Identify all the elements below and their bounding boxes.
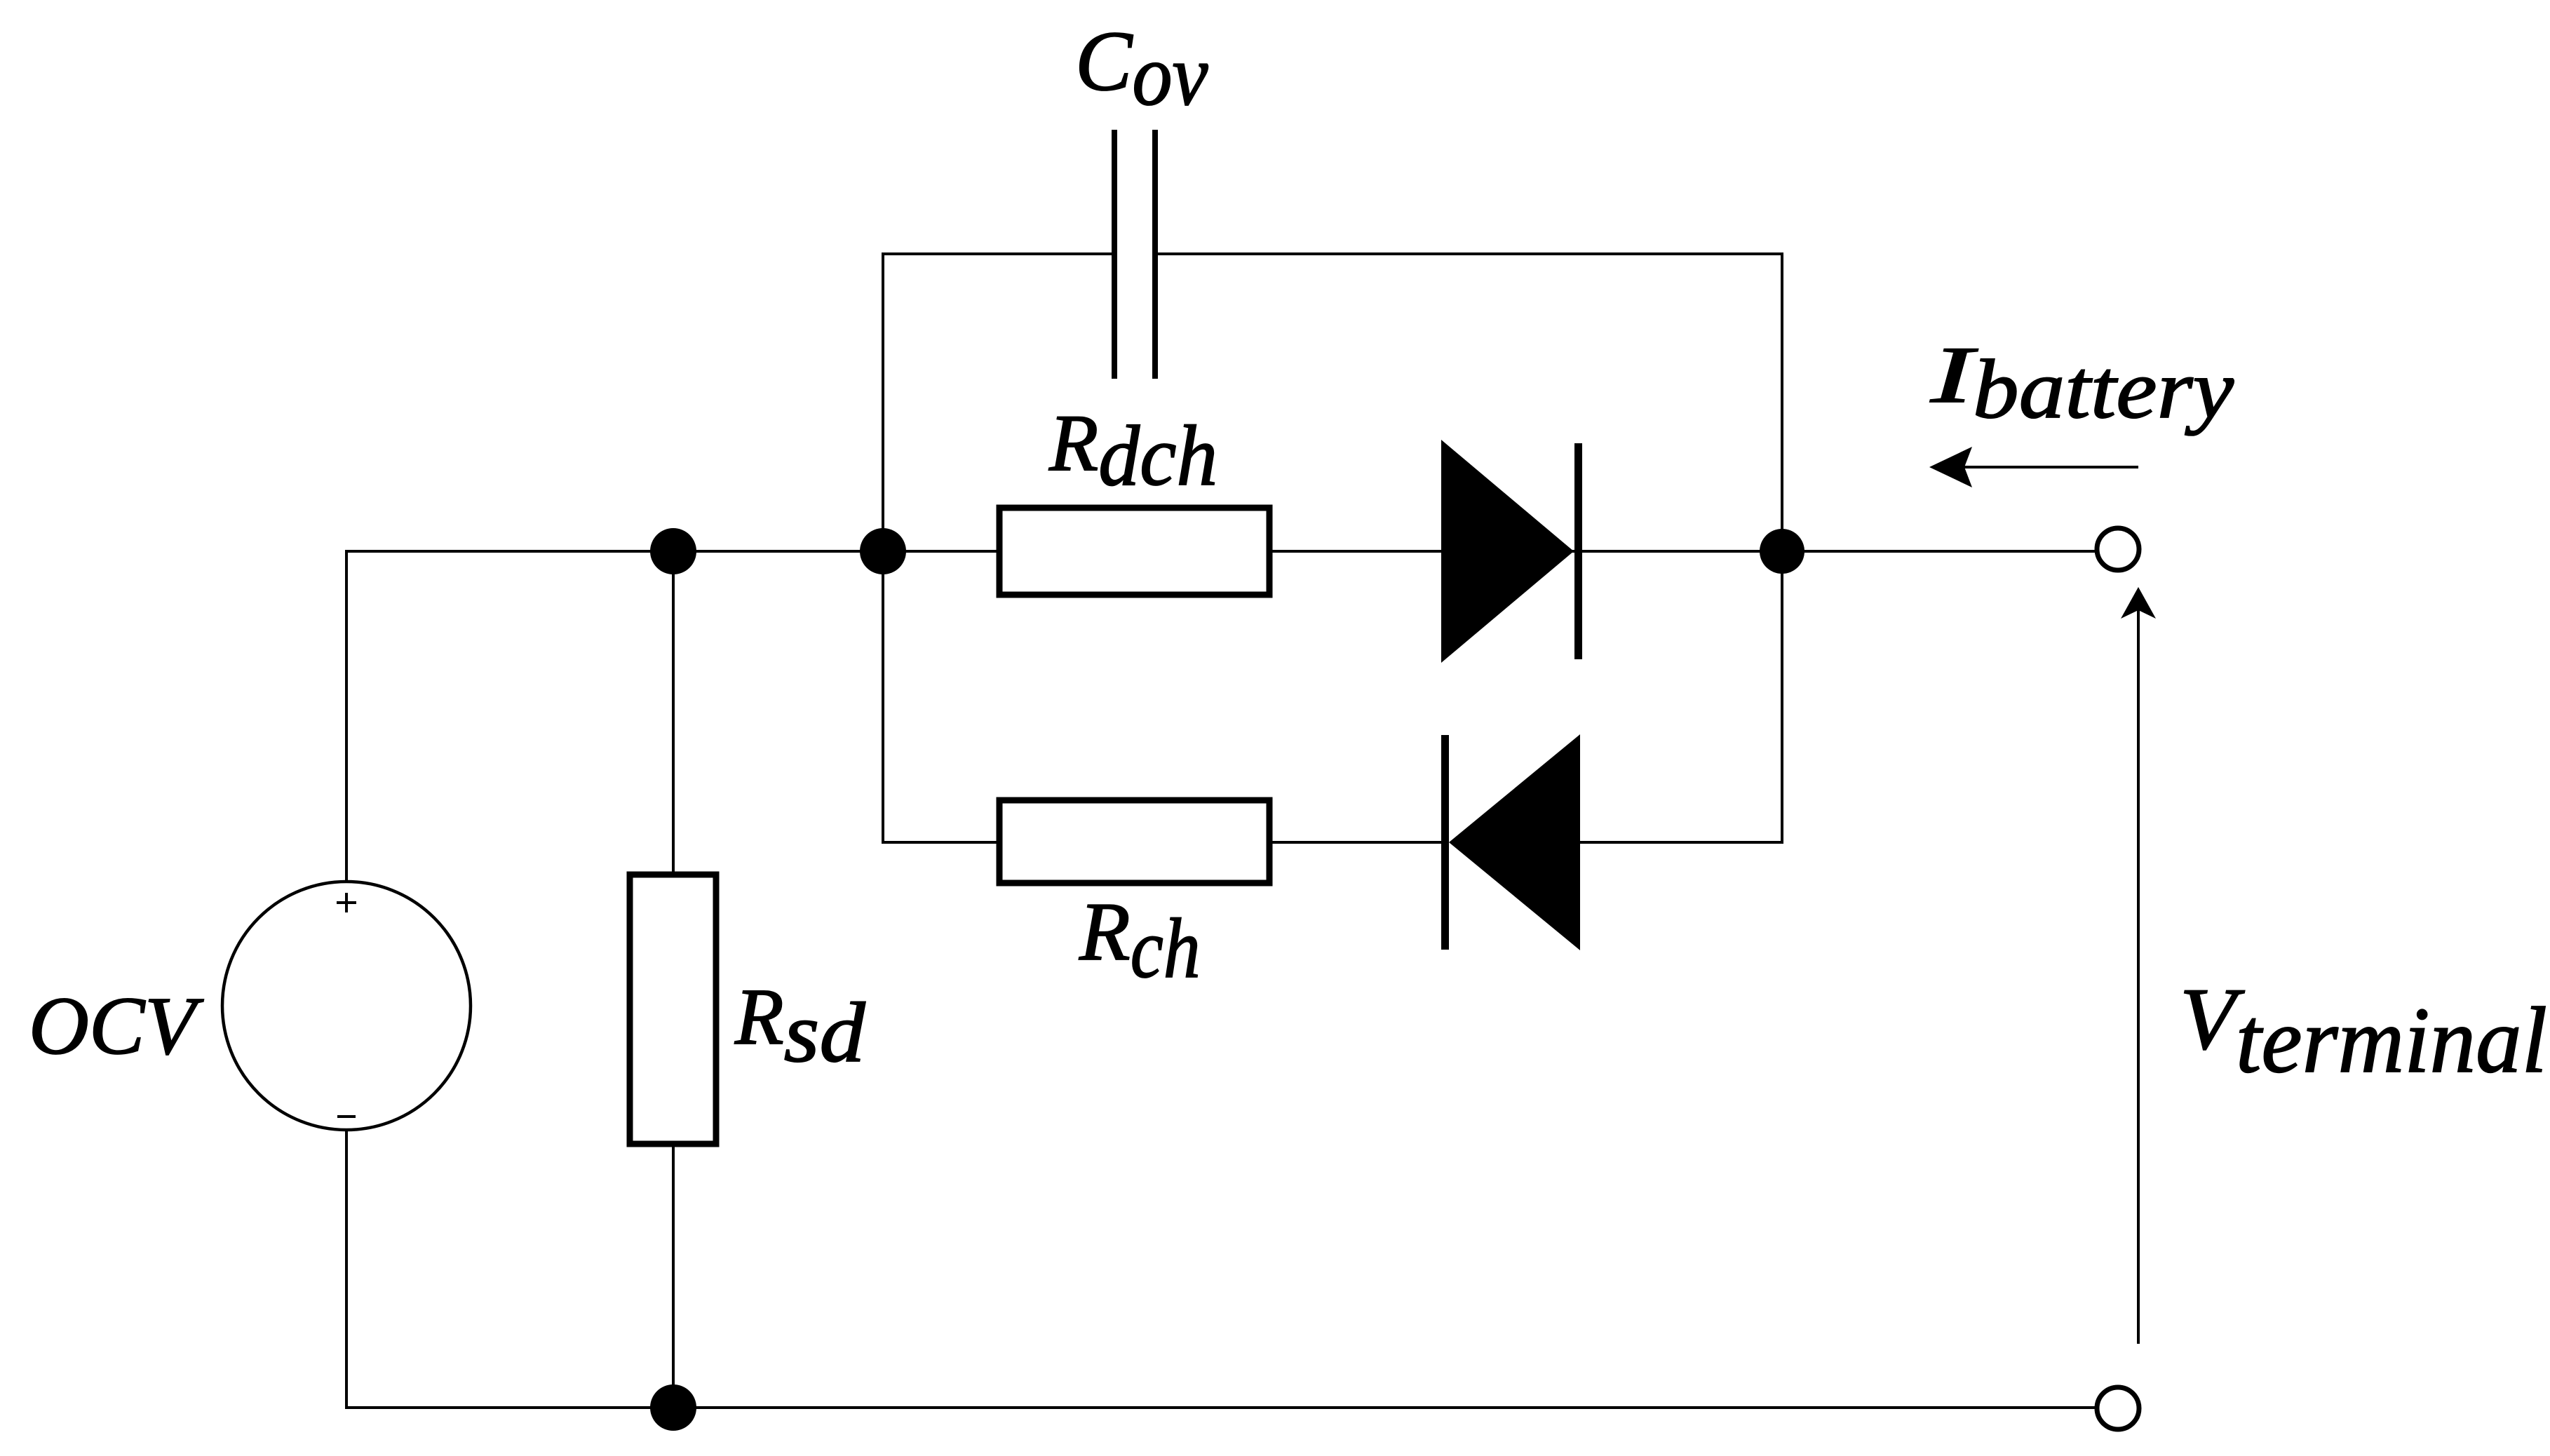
diode D2 charge (pointing left) <box>1441 734 1580 950</box>
diode D1 discharge (pointing right) <box>1441 440 1582 663</box>
minus polarity mark <box>337 1115 356 1118</box>
plus polarity mark <box>337 893 356 912</box>
wire bottom branch right segment <box>1580 841 1783 844</box>
label R_dch <box>1048 398 1217 504</box>
node junction dot B (main wire / left branch) <box>860 528 906 574</box>
svg-text:Cov: Cov <box>1075 14 1208 124</box>
arrow V_terminal (pointing up) <box>2121 587 2156 1344</box>
wire top rail left segment <box>882 252 1114 255</box>
wire OCV bottom vertical <box>345 1128 348 1409</box>
svg-text:OCV: OCV <box>29 980 204 1072</box>
svg-text:Rdch: Rdch <box>1048 398 1217 504</box>
terminal circle negative (bottom right) <box>2097 1387 2139 1429</box>
terminal circle positive (top right) <box>2097 528 2139 570</box>
label R_sd <box>734 972 866 1080</box>
label R_ch <box>1079 885 1201 996</box>
wire right branch vertical <box>1781 252 1783 844</box>
label I_battery <box>1929 330 2234 436</box>
wire bottom branch left segment <box>882 841 999 844</box>
wire left branch vertical <box>882 252 884 844</box>
svg-text:Rsd: Rsd <box>734 972 866 1080</box>
wire R_sd bottom vertical <box>672 1142 675 1408</box>
label OCV <box>29 980 204 1072</box>
svg-text:Ibattery: Ibattery <box>1929 330 2234 436</box>
voltage source OCV circle <box>222 882 471 1130</box>
wire main top horizontal <box>346 550 2095 553</box>
wire bottom rail horizontal <box>346 1406 2095 1409</box>
label V_terminal <box>2180 971 2547 1092</box>
svg-text:Vterminal: Vterminal <box>2180 971 2547 1092</box>
resistor R_ch <box>999 800 1269 883</box>
label C_ov <box>1075 14 1208 124</box>
svg-text:Rch: Rch <box>1079 885 1201 996</box>
resistor R_dch <box>999 508 1269 595</box>
arrow I_battery (pointing left) <box>1929 447 2138 487</box>
node junction dot D (bottom rail / R_sd) <box>650 1384 696 1431</box>
wire R_sd top vertical <box>672 551 675 876</box>
wire top rail right segment <box>1155 252 1783 255</box>
resistor R_sd <box>630 875 716 1144</box>
node junction dot C (main wire / right branch) <box>1760 529 1804 574</box>
capacitor C_ov plates <box>1114 130 1155 379</box>
node junction dot A (main wire / R_sd) <box>650 528 696 574</box>
wire bottom branch middle segment <box>1269 841 1442 844</box>
wire OCV top vertical <box>345 550 348 883</box>
